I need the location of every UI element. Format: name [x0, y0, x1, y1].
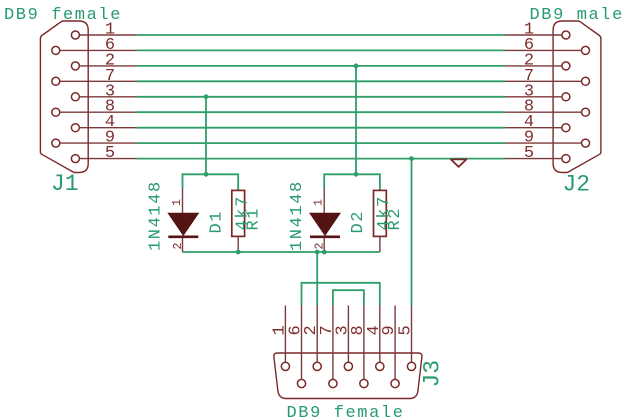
svg-text:5: 5	[105, 144, 115, 163]
J3 pin 1 stub and number	[270, 306, 289, 363]
wire net pin 7 (J1-7 to J2-7)	[137, 80, 506, 82]
wire net pin 3 (J1-3 to J2-3)	[137, 96, 506, 98]
J1 pin 7 stub and number	[60, 67, 137, 86]
junction bottom rail / J3 pin2 wire	[315, 250, 320, 255]
J3 pin 3 stub and number	[333, 306, 352, 363]
resistor R2 (4k7)	[374, 190, 387, 252]
wire net pin 5 (J1-5 to J2-5)	[137, 158, 506, 160]
svg-text:5: 5	[397, 325, 416, 335]
wire bottom rail to J3 pin 2	[316, 252, 318, 306]
junction R1 bottom / bottom rail	[236, 250, 241, 255]
svg-text:2: 2	[172, 243, 185, 250]
svg-text:D2: D2	[349, 210, 368, 234]
svg-text:J2: J2	[563, 172, 591, 198]
wire net pin 8 (J1-8 to J2-8)	[137, 111, 506, 113]
J3 pin 6 stub and number	[287, 306, 306, 380]
svg-text:1N4148: 1N4148	[288, 180, 307, 251]
J1 pin 5 stub and number	[79, 144, 136, 163]
J2 pin 2 stub and number	[505, 51, 562, 70]
J2 pin 4 stub and number	[505, 113, 562, 132]
wire net pin 9 (J1-9 to J2-9)	[137, 142, 506, 144]
diode D1 (1N4148)	[168, 189, 198, 252]
svg-text:DB9 female: DB9 female	[287, 404, 405, 420]
J1 pin 6 stub and number	[60, 36, 137, 55]
J1 pin 1 stub and number	[79, 21, 136, 40]
svg-text:DB9 male: DB9 male	[530, 6, 624, 25]
svg-text:1N4148: 1N4148	[147, 180, 166, 251]
junction pin5 row / J3 dropper	[409, 156, 414, 161]
J2 pin circles	[562, 31, 590, 163]
svg-text:R2: R2	[386, 207, 405, 231]
svg-text:DB9 female: DB9 female	[4, 6, 122, 25]
wire J3 pin 7 to pin 8 bracket	[333, 290, 364, 305]
diode D2 (1N4148)	[310, 189, 340, 252]
J1 pin 9 stub and number	[60, 129, 137, 148]
marker triangle on pin 5 net	[451, 159, 467, 166]
J3 pin 7 stub and number	[318, 306, 337, 380]
wire net pin 6 (J1-6 to J2-6)	[137, 49, 506, 51]
J3 pin 5 stub and number	[397, 306, 416, 363]
J1 pin 8 stub and number	[60, 98, 137, 117]
J2 pin 5 stub and number	[505, 144, 562, 163]
wire D1/R1 top rail	[183, 174, 239, 190]
svg-text:R1: R1	[245, 207, 264, 231]
J3 pin 9 stub and number	[380, 306, 399, 380]
svg-text:J3: J3	[420, 360, 446, 388]
wire J3 pin 6 to pin 4 bracket	[302, 283, 380, 306]
J2 pin 7 stub and number	[505, 67, 582, 86]
J1 pin 2 stub and number	[79, 51, 136, 70]
J2 pin 3 stub and number	[505, 82, 562, 101]
svg-text:D1: D1	[208, 210, 227, 234]
junction D2 bottom / bottom rail	[322, 250, 327, 255]
wire D2/R2 top rail	[324, 174, 380, 190]
J2 pin 1 stub and number	[505, 21, 562, 40]
J3 pin 4 stub and number	[365, 306, 384, 363]
connector J2 (DB9 male) shell	[553, 21, 601, 173]
wire dropper from pin 3 row to D1/R1 top	[205, 97, 207, 175]
svg-text:1: 1	[313, 199, 326, 206]
wire dropper from pin 5 row to J3 pin 5	[411, 159, 413, 306]
J1 pin 3 stub and number	[79, 82, 136, 101]
wire D-network bottom rail	[183, 251, 380, 253]
wire net pin 2 (J1-2 to J2-2)	[137, 65, 506, 67]
wire net pin 4 (J1-4 to J2-4)	[137, 127, 506, 129]
junction D1 top rail	[204, 172, 209, 177]
svg-text:2: 2	[314, 243, 327, 250]
svg-text:5: 5	[524, 144, 534, 163]
svg-text:J1: J1	[51, 171, 79, 197]
J3 pin circles	[281, 362, 415, 387]
J2 pin 9 stub and number	[505, 129, 582, 148]
junction pin2 row / D2 dropper	[354, 64, 359, 69]
resistor R1 (4k7)	[232, 190, 245, 252]
junction D2 top rail	[354, 172, 359, 177]
J2 pin 8 stub and number	[505, 98, 582, 117]
J3 pin 8 stub and number	[349, 306, 368, 380]
J1 pin circles	[52, 31, 80, 163]
J1 pin 4 stub and number	[79, 113, 136, 132]
J3 pin 2 stub and number	[302, 306, 321, 363]
connector J3 (DB9 female) shell	[274, 353, 422, 399]
junction pin3 row / D1 dropper	[204, 94, 209, 99]
svg-text:1: 1	[171, 199, 184, 206]
connector J1 (DB9 female) shell	[40, 21, 88, 173]
wire net pin 1 (J1-1 to J2-1)	[137, 34, 506, 36]
J2 pin 6 stub and number	[505, 36, 582, 55]
wire dropper from pin 2 row to D2/R2 top	[355, 66, 357, 174]
